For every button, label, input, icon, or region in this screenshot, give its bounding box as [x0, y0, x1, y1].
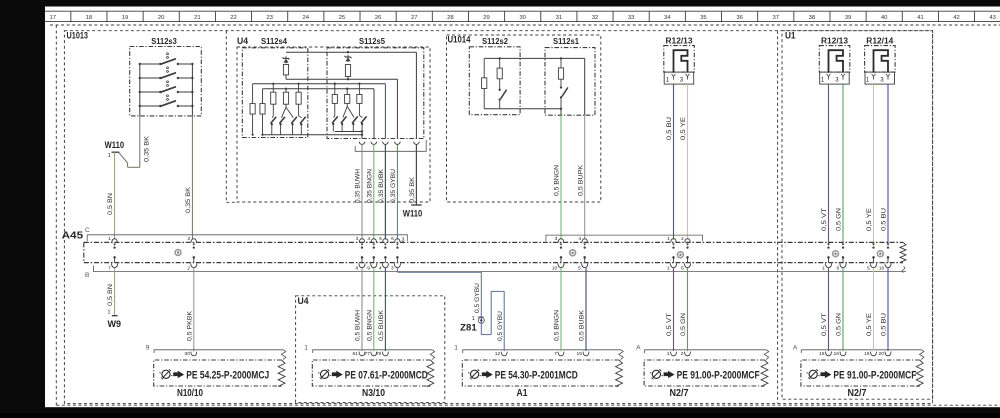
switch block S112s4 box [242, 48, 307, 138]
N2/7 bracket line [645, 350, 767, 353]
switch S112s1 box [545, 48, 595, 116]
svg-text:27: 27 [411, 15, 418, 21]
svg-text:20: 20 [158, 15, 165, 21]
resistor column left x=334.8 [334, 84, 336, 95]
S112s3 switch actuator 1 [167, 53, 169, 55]
svg-text:1: 1 [108, 153, 111, 159]
svg-text:PE 91.00-P-2000MCF: PE 91.00-P-2000MCF [833, 370, 916, 382]
A1 bracket line [463, 350, 621, 353]
svg-text:10: 10 [879, 266, 885, 272]
heated nozzle R12/14 box [865, 46, 896, 73]
svg-text:R12/13: R12/13 [666, 35, 693, 45]
svg-text:1: 1 [667, 351, 670, 357]
svg-text:1: 1 [866, 76, 870, 83]
S112s2/S112s1 bottom rail [484, 108, 561, 110]
separator dashed line (middle section right edge) [777, 31, 779, 404]
svg-text:U4: U4 [298, 296, 309, 306]
S112s1 switch blade [560, 86, 562, 88]
A45 pass-through pins at x=193.8 [191, 239, 196, 243]
S112s2 shunt resistor [483, 58, 485, 77]
S112s3 switch actuator 2 [167, 67, 169, 69]
wire 0.5 BU/BK A45 B5 to A1 pin 15 [585, 267, 586, 269]
svg-text:0,5 GYBU: 0,5 GYBU [497, 311, 504, 341]
svg-text:16: 16 [834, 351, 840, 357]
svg-text:9: 9 [146, 344, 150, 351]
svg-text:43: 43 [989, 15, 996, 21]
R12/13 element glyph [674, 50, 688, 72]
connector sleeve Z81 [478, 317, 484, 323]
svg-text:40: 40 [881, 15, 888, 21]
unit box U4 (switch group) [237, 47, 430, 202]
svg-text:S112s5: S112s5 [359, 36, 385, 46]
svg-text:N2/7: N2/7 [670, 387, 689, 399]
wire 0.5 BU/BK A45 B4 to N3/10 pin 76 [384, 268, 386, 351]
svg-text:0,5 GYBU: 0,5 GYBU [474, 283, 481, 313]
ruler: coordinate strip with numbers 17-43 [45, 10, 1000, 12]
unit box U1014 [447, 35, 601, 202]
A45 pass-through pins at x=373.8 [371, 239, 376, 243]
svg-text:PE 54.30-P-2001MCD: PE 54.30-P-2001MCD [495, 370, 578, 382]
A45 pass-through pins at x=828.5 [827, 244, 830, 246]
switch blade 2 [279, 117, 285, 124]
svg-text:0,5 BUPK: 0,5 BUPK [577, 165, 584, 196]
svg-text:0,5 VT: 0,5 VT [666, 313, 673, 336]
svg-text:19: 19 [122, 15, 129, 21]
svg-text:3: 3 [356, 236, 359, 242]
svg-text:0,5 PKBK: 0,5 PKBK [186, 311, 193, 341]
S112s3 switch blade 3 [160, 87, 176, 93]
svg-text:38: 38 [809, 15, 816, 21]
svg-text:U1013: U1013 [67, 31, 89, 41]
R12/14 element glyph [874, 50, 889, 72]
svg-text:7: 7 [108, 266, 111, 272]
svg-text:1: 1 [108, 310, 111, 316]
svg-text:0,5 YE: 0,5 YE [866, 207, 873, 231]
svg-text:7: 7 [554, 351, 557, 357]
S112s3 switch blade 2 [160, 73, 176, 79]
svg-text:N2/7: N2/7 [848, 387, 867, 399]
A45 pass-through pins at x=362 [359, 239, 364, 243]
svg-text:2: 2 [681, 236, 684, 242]
svg-text:0,35 BK: 0,35 BK [144, 136, 151, 162]
svg-text:10: 10 [552, 266, 558, 272]
U4 connector pin at x=397.4 [395, 142, 401, 145]
switch S112s2 box [469, 47, 520, 115]
wire 0.5 BU R12/13 to A45 C1 [673, 84, 675, 239]
N2/7 PE dashed box [801, 360, 920, 386]
svg-text:31: 31 [556, 15, 563, 21]
svg-text:U1: U1 [785, 31, 796, 41]
U4 connector housing outline [355, 140, 426, 151]
svg-text:24: 24 [303, 15, 310, 21]
N2/7 bracket line [801, 350, 921, 353]
svg-text:32: 32 [592, 15, 599, 21]
svg-text:29: 29 [483, 15, 490, 21]
N10/10 bracket line [154, 350, 284, 353]
svg-text:1: 1 [108, 236, 111, 242]
R12/13 pin strip [664, 72, 694, 84]
wire 0.5 GY/BU A45 B3 via Z81 to A1 pin 12 [396, 268, 398, 272]
A45 pass-through pins at x=584.7 [582, 239, 587, 243]
svg-text:18: 18 [86, 15, 93, 21]
A45 pass-through pins at x=888 [887, 244, 890, 246]
S112s1 series resistor [560, 58, 562, 68]
A45 mounting point at x=572.6 [570, 250, 576, 256]
svg-text:30: 30 [184, 351, 190, 357]
svg-text:12: 12 [495, 351, 501, 357]
page frame: bottom black bar [45, 407, 1000, 413]
svg-text:4: 4 [578, 236, 581, 242]
svg-text:S112s4: S112s4 [261, 36, 287, 46]
svg-text:0,5 BU: 0,5 BU [881, 208, 888, 231]
U4 rail wire from diode resistors (to GY/BU output) [285, 75, 287, 79]
label U1013 [66, 32, 90, 40]
svg-text:9: 9 [367, 266, 370, 272]
wire 0.5 GN A45 B6 to N2/7 pin 16 (U1) [842, 268, 844, 351]
svg-text:17: 17 [49, 15, 56, 21]
wire 0.5 BN from W110 down to A45 pin C1 [114, 152, 116, 239]
wire 0.5 BU R12/14 to A45 [887, 84, 889, 244]
svg-text:A1: A1 [517, 387, 528, 399]
switch blade 1 [332, 116, 338, 123]
svg-text:2: 2 [187, 266, 190, 272]
svg-text:B: B [85, 272, 90, 279]
switch link lines [272, 104, 274, 116]
switch blade 4 [300, 117, 306, 124]
svg-text:0,5 BN: 0,5 BN [107, 284, 114, 306]
page frame: left black bar [0, 0, 45, 413]
svg-text:5: 5 [867, 266, 870, 272]
wire 0.5 PK/BK A45 B2 to N10/10 pin 30 [193, 268, 195, 352]
R12/13 pin strip [820, 72, 850, 84]
svg-text:0,5 GN: 0,5 GN [836, 208, 843, 231]
A1 pointing hand icon [482, 371, 493, 379]
N3/10 component icon [321, 370, 329, 378]
svg-text:6: 6 [391, 236, 394, 242]
N3/10 pointing hand icon [332, 371, 343, 379]
svg-text:S112s2: S112s2 [482, 36, 508, 46]
ground point W110 [112, 151, 120, 153]
wire 0.5 YE R12/13 to A45 C2 [687, 84, 689, 239]
switch block S112s5 box [327, 48, 424, 139]
svg-text:N10/10: N10/10 [177, 387, 203, 399]
svg-text:8: 8 [355, 266, 358, 272]
svg-text:R12/14: R12/14 [866, 35, 893, 45]
resistor column mid x=286 [285, 89, 287, 93]
S112s3 switch contact rung 4 [140, 105, 161, 107]
svg-text:1: 1 [454, 344, 458, 351]
unit box U1 border [782, 31, 933, 400]
wire 0.35 BN/GN U4 to A45 C4 [373, 144, 375, 239]
svg-text:Z81: Z81 [460, 322, 477, 333]
resistor column left x=273.3 [272, 84, 274, 93]
wire 0.35 GY/BU U4 to A45 C6 [396, 144, 398, 239]
svg-text:0,5 GN: 0,5 GN [680, 313, 687, 336]
A45 pass-through pins at x=385.4 [383, 239, 388, 243]
S112s3 switch actuator 3 [167, 81, 169, 83]
svg-text:19: 19 [864, 351, 870, 357]
svg-text:39: 39 [845, 15, 852, 21]
wire 0.5 GN R12/13(U1) to A45 [842, 84, 844, 244]
svg-text:0,5 BU: 0,5 BU [666, 117, 673, 140]
svg-text:3: 3 [555, 236, 558, 242]
S112s4 left resistor 1 [252, 84, 254, 104]
svg-text:6: 6 [836, 266, 839, 272]
S112s4 left resistor 2 [262, 89, 264, 104]
svg-text:W110: W110 [105, 139, 125, 150]
U4 top rail wire (to 0.35 BK output) [286, 51, 416, 53]
A45 mounting point at x=835.6 [833, 251, 839, 257]
A45 pass-through pins at x=843 [842, 244, 845, 246]
R12/14 pin strip [865, 72, 895, 84]
S112s4 series resistor [283, 65, 288, 75]
A1 PE dashed box [462, 360, 619, 386]
svg-text:15: 15 [577, 351, 583, 357]
svg-text:0,35 BUWH: 0,35 BUWH [355, 169, 362, 203]
svg-text:0,5 VT: 0,5 VT [821, 313, 828, 336]
svg-text:77: 77 [364, 351, 370, 357]
switch block S112s3 box [130, 47, 202, 116]
switch blade 4 [361, 116, 367, 123]
svg-text:26: 26 [375, 15, 382, 21]
wire 0.35 BU/BK U4 to A45 C5 [384, 144, 386, 239]
svg-text:0,5 VT: 0,5 VT [821, 208, 828, 231]
S112s5 series resistor [345, 65, 350, 77]
A45 pass-through pins at x=687.5 [685, 239, 690, 243]
svg-text:0,5 BNGN: 0,5 BNGN [554, 165, 561, 196]
S112s2 switch blade [499, 89, 501, 91]
svg-text:PE 54.25-P-2000MCJ: PE 54.25-P-2000MCJ [186, 370, 269, 382]
U4 connector pin at x=385.4 [383, 142, 389, 145]
N2/7 PE dashed box [644, 360, 764, 386]
wire 0.5 BU/PK S112s1 to A45 C4 [584, 58, 586, 115]
S112s2/S112s1 top rail [484, 57, 585, 59]
svg-text:PE 07.61-P-2000MCD: PE 07.61-P-2000MCD [345, 370, 428, 382]
S112s4 zener diode [285, 56, 287, 63]
svg-text:30: 30 [519, 15, 526, 21]
svg-text:35: 35 [700, 15, 707, 21]
wire 0.5 BU A45 B10 to N2/7 pin 20 (U1) [887, 268, 889, 351]
R12/13 element glyph [829, 50, 844, 72]
unit box U1013 border (right edge, meets U4 bottom) [225, 31, 227, 203]
S112s3 switch contact rung 1 [140, 63, 161, 65]
svg-text:41: 41 [917, 15, 924, 21]
resistor column right x=298.6 [298, 84, 300, 93]
N10/10 pointing hand icon [173, 371, 184, 379]
switch link lines [334, 103, 336, 115]
S112s3 switch blade 1 [160, 59, 176, 65]
A45 pass-through pins at x=561 [558, 239, 563, 243]
switch blade 1 [271, 117, 277, 124]
svg-text:0,5 YE: 0,5 YE [866, 312, 873, 336]
U4 rail wire A (to BU/BK output) [253, 83, 386, 85]
svg-text:0,35 BUBK: 0,35 BUBK [378, 169, 385, 203]
svg-text:0,35 BNGN: 0,35 BNGN [366, 169, 373, 203]
wire 0.5 VT A45 B1 to N2/7 pin 15 (U1) [828, 268, 830, 351]
A45 connector bracket C (left) [87, 235, 407, 241]
page inner dashed frame [64, 31, 932, 404]
wire 0.35 BK from S112s3 right to A45 pin C2 [191, 116, 193, 239]
U4 connector pin at x=416.4 [414, 142, 420, 145]
A45 pass-through pins at x=397.4 [395, 239, 400, 243]
N3/10 PE dashed box [312, 360, 430, 386]
heated nozzle R12/13 box [664, 46, 695, 73]
svg-text:21: 21 [194, 15, 201, 21]
page outer dashed border [55, 25, 57, 405]
unit box U4 (lower, around N3/10) [296, 296, 445, 403]
ground point W9 [112, 315, 118, 317]
svg-text:15: 15 [819, 351, 825, 357]
svg-text:0,5 BNGN: 0,5 BNGN [554, 310, 561, 341]
svg-text:PE 91.00-P-2000MCF: PE 91.00-P-2000MCF [677, 370, 760, 382]
wire 0.35 BU/WH U4 to A45 C3 [361, 144, 363, 239]
N2/7 pointing hand icon [664, 371, 675, 379]
svg-text:A45: A45 [62, 231, 84, 242]
wire 0.35 BK U4 to ground W110 [415, 144, 417, 205]
S112s3 left rail [139, 64, 141, 116]
switch blade 3 [291, 117, 297, 124]
svg-text:0,5 BUBK: 0,5 BUBK [579, 310, 586, 341]
svg-text:3: 3 [880, 76, 884, 83]
svg-text:42: 42 [953, 15, 960, 21]
svg-text:3: 3 [835, 76, 839, 83]
wire 0.5 BU/WH A45 B8 to N3/10 pin 61 [361, 268, 363, 351]
resistor column right x=359.4 [358, 84, 360, 95]
svg-text:0,5 BN: 0,5 BN [107, 193, 114, 215]
N2/7 component icon [809, 370, 817, 378]
S112s3 switch blade 4 [160, 101, 176, 107]
svg-text:0,5 YE: 0,5 YE [680, 116, 687, 140]
svg-text:1: 1 [821, 76, 825, 83]
switch blade 3 [352, 116, 358, 123]
svg-text:0,5 BUWH: 0,5 BUWH [355, 310, 362, 341]
A45 mounting point at x=178 [175, 250, 181, 256]
svg-text:22: 22 [230, 15, 237, 21]
svg-text:R12/13: R12/13 [821, 35, 848, 45]
svg-text:U4: U4 [237, 36, 248, 46]
wire 0.5 GN A45 B6 to N2/7 pin 2 [687, 268, 689, 351]
S112s3 switch contact rung 2 [140, 77, 161, 79]
control unit A45 strip [84, 241, 903, 243]
svg-text:3: 3 [391, 266, 394, 272]
svg-text:6: 6 [681, 266, 684, 272]
svg-text:3: 3 [680, 76, 684, 83]
svg-text:5: 5 [379, 236, 382, 242]
wire 0.5 BN/GN A45 B10 to A1 pin 7 [560, 268, 562, 351]
svg-text:0,35 GYBU: 0,35 GYBU [390, 169, 397, 203]
A45 mounting point at x=880.3 [877, 251, 883, 257]
svg-text:A: A [636, 344, 641, 351]
label U1 [784, 32, 796, 40]
A45 connector bracket B [93, 266, 906, 272]
wire 0.5 VT R12/13(U1) to A45 [828, 84, 830, 244]
svg-text:W9: W9 [108, 318, 122, 329]
N3/10 bracket line [313, 350, 433, 353]
A45 mounting point at x=680.4 [678, 252, 684, 258]
svg-text:36: 36 [736, 15, 743, 21]
A45 right break squiggle [900, 242, 906, 262]
N10/10 PE dashed box [154, 360, 282, 386]
svg-text:2: 2 [187, 236, 190, 242]
svg-text:U1014: U1014 [448, 35, 471, 45]
svg-text:S112s3: S112s3 [151, 36, 177, 46]
resistor column mid x=347.2 [346, 89, 348, 95]
svg-text:25: 25 [339, 15, 346, 21]
wire 0.5 BN A45 B7 to ground W9 [114, 268, 116, 316]
svg-text:S112s1: S112s1 [553, 36, 579, 46]
ground point W110 (second) [411, 204, 421, 206]
svg-text:1: 1 [667, 266, 670, 272]
page frame: top black bar [0, 0, 1000, 7]
svg-text:0,5 BNGN: 0,5 BNGN [366, 310, 373, 341]
A45 pass-through pins at x=673.5 [671, 239, 676, 243]
S112s5 zener diode [347, 55, 349, 62]
svg-text:4: 4 [367, 236, 370, 242]
wire 0.35 BK from S112s3 left to ground W110 [139, 116, 141, 167]
svg-text:23: 23 [266, 15, 273, 21]
svg-text:0,5 BUBK: 0,5 BUBK [378, 310, 385, 341]
svg-text:76: 76 [376, 351, 382, 357]
A45 pass-through pins at x=873.5 [872, 244, 875, 246]
svg-text:0,35 BK: 0,35 BK [409, 177, 416, 203]
S112s3 right rail [191, 64, 193, 116]
svg-text:C: C [85, 227, 90, 234]
N2/7 pointing hand icon [820, 371, 831, 379]
heated nozzle R12/13 box [819, 46, 850, 73]
A45 connector bracket C (middle) [546, 235, 703, 241]
svg-text:A: A [793, 344, 798, 351]
svg-text:0,5 BU: 0,5 BU [881, 313, 888, 336]
svg-text:1: 1 [822, 266, 825, 272]
S112s3 switch contact rung 3 [140, 91, 161, 93]
svg-text:5: 5 [578, 266, 581, 272]
U4 bottom switch rail S112s5 [335, 131, 362, 133]
N10/10 component icon [162, 370, 170, 378]
svg-text:20: 20 [879, 351, 885, 357]
svg-text:0,35 BK: 0,35 BK [185, 187, 192, 213]
N2/7 component icon [652, 370, 660, 378]
S112s2 series resistor [499, 58, 501, 68]
switch blade 2 [341, 116, 347, 123]
wire 0.5 YE R12/14 to A45 [873, 84, 875, 244]
U4 connector pin at x=373.8 [371, 142, 377, 145]
A45 pass-through pins at x=114.6 [112, 239, 117, 243]
wire 0.5 BN/GN S112s1 to A45 C3 [560, 109, 562, 115]
svg-text:0,5 GN: 0,5 GN [836, 313, 843, 336]
svg-text:3: 3 [402, 237, 405, 243]
svg-text:37: 37 [772, 15, 779, 21]
U4 rail wire B (to BN/GN output) [263, 88, 375, 90]
svg-text:34: 34 [664, 15, 671, 21]
svg-text:1: 1 [304, 344, 308, 351]
svg-text:1: 1 [666, 76, 670, 83]
wire 0.5 VT A45 B1 to N2/7 pin 1 [673, 268, 675, 351]
svg-text:61: 61 [353, 351, 359, 357]
svg-text:1: 1 [667, 236, 670, 242]
S112s3 switch actuator 4 [167, 95, 169, 97]
svg-text:N3/10: N3/10 [362, 387, 385, 399]
svg-text:W110: W110 [403, 208, 423, 219]
wire 0.5 YE A45 B5 to N2/7 pin 19 (U1) [873, 268, 875, 351]
wire 0.5 BN/GN A45 B9 to N3/10 pin 77 [373, 268, 375, 351]
A1 component icon [471, 370, 479, 378]
svg-text:33: 33 [628, 15, 635, 21]
svg-text:28: 28 [447, 15, 454, 21]
U4 bottom switch rail S112s4 [262, 134, 362, 136]
svg-text:4: 4 [379, 266, 382, 272]
U4 connector pin at x=362 [359, 142, 365, 145]
svg-text:2: 2 [681, 351, 684, 357]
